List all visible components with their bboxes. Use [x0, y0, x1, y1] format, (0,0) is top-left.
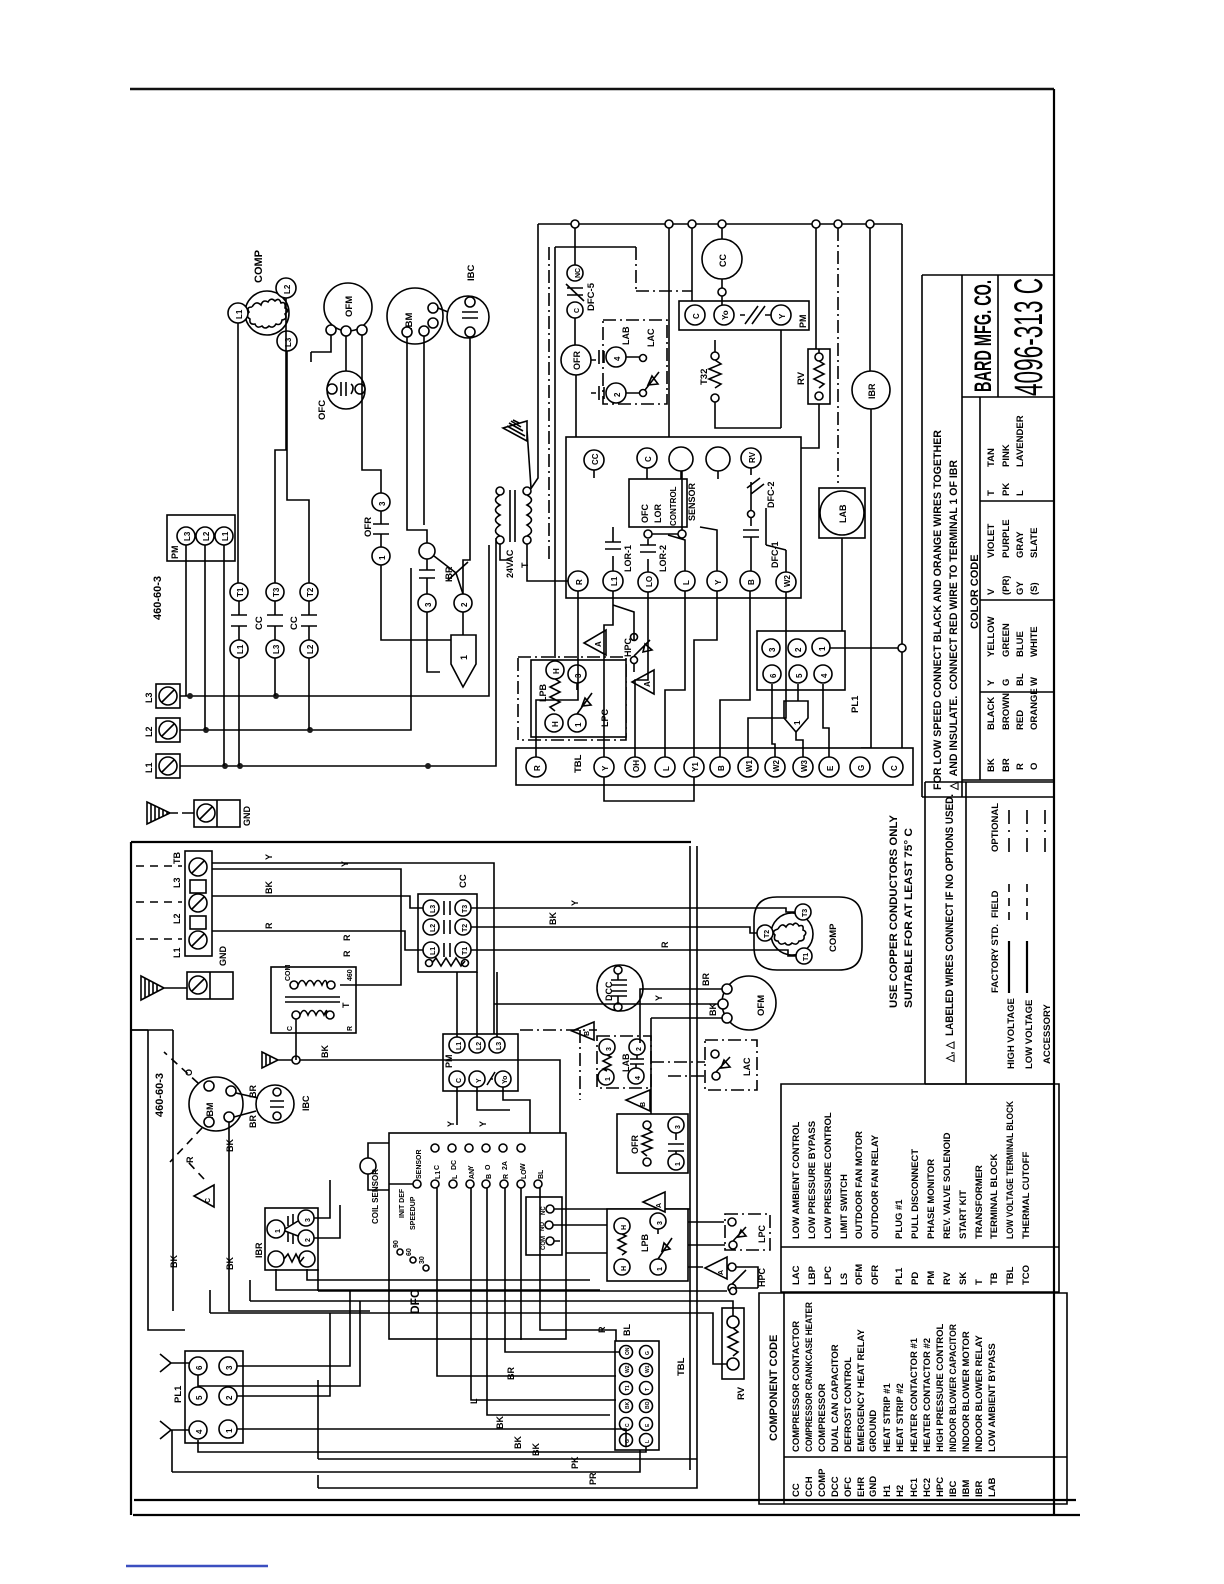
svg-text:VIOLET: VIOLET — [986, 523, 997, 558]
svg-text:DUAL CAN CAPACITOR: DUAL CAN CAPACITOR — [830, 1344, 841, 1452]
warning triangle left of LPB — [643, 1192, 665, 1212]
svg-text:PINK: PINK — [1001, 444, 1012, 467]
svg-text:R: R — [342, 934, 352, 941]
svg-text:COMP: COMP — [817, 1468, 828, 1497]
warning triangle HPC — [705, 1257, 727, 1279]
chassis ground and BK wire — [262, 1052, 292, 1068]
svg-text:BR: BR — [701, 973, 711, 986]
wire COMP L2 down — [275, 298, 286, 583]
LPC contact — [568, 665, 586, 683]
svg-text:L: L — [469, 1398, 479, 1404]
svg-text:Yo: Yo — [721, 310, 730, 320]
svg-text:GREEN: GREEN — [1001, 623, 1012, 657]
svg-text:G: G — [645, 1351, 651, 1355]
wire transformer C down — [295, 1019, 297, 1060]
svg-text:BK: BK — [225, 1257, 235, 1270]
wires CC to COMP — [471, 908, 796, 956]
svg-text:2A: 2A — [502, 1161, 509, 1170]
svg-text:L1: L1 — [235, 309, 244, 319]
svg-text:TB: TB — [989, 1272, 1000, 1285]
wire IBM feeds — [407, 336, 427, 543]
solenoid RV upper — [808, 349, 830, 404]
DFC pins upper row — [431, 1144, 439, 1152]
svg-text:COMP: COMP — [828, 923, 839, 952]
svg-text:L3: L3 — [430, 905, 437, 913]
contact LOR-2 — [640, 539, 656, 572]
svg-text:YELLOW: YELLOW — [986, 616, 997, 657]
svg-text:LPC: LPC — [757, 1224, 767, 1243]
svg-text:3: 3 — [424, 602, 433, 607]
svg-text:PL1: PL1 — [173, 1385, 184, 1403]
DFC relay contact COM NO NC — [526, 1197, 562, 1255]
lower section top border — [131, 841, 691, 843]
plug LAC box — [603, 320, 667, 404]
board circle RV — [741, 448, 761, 468]
svg-text:SK: SK — [958, 1272, 969, 1285]
svg-text:V: V — [986, 588, 997, 595]
svg-text:T1: T1 — [803, 953, 810, 961]
svg-text:BK: BK — [625, 1401, 631, 1409]
svg-text:O: O — [1029, 763, 1040, 770]
svg-text:ON: ON — [625, 1347, 631, 1355]
svg-text:A: A — [594, 641, 603, 647]
svg-text:L1: L1 — [435, 1171, 442, 1179]
resistor T32 — [711, 352, 719, 360]
svg-text:3: 3 — [675, 1125, 682, 1129]
contactor CC contacts upper — [230, 583, 248, 601]
svg-text:2: 2 — [636, 1047, 643, 1051]
terminal L2 — [156, 718, 180, 742]
svg-text:A: A — [656, 1203, 663, 1208]
svg-text:BROWN: BROWN — [1001, 693, 1012, 730]
svg-text:90: 90 — [393, 1240, 400, 1248]
ground terminal GND box — [194, 800, 240, 827]
motor IBM upper — [387, 288, 443, 344]
svg-text:RED: RED — [1015, 710, 1026, 730]
wire x173 drop — [131, 1030, 173, 1311]
svg-text:R: R — [342, 950, 352, 957]
svg-text:L: L — [1015, 490, 1026, 496]
svg-text:460-60-3: 460-60-3 — [152, 576, 164, 620]
wires DFC pins down — [437, 1188, 619, 1415]
svg-text:R: R — [575, 579, 584, 585]
svg-text:LAC: LAC — [742, 1057, 752, 1076]
svg-text:R: R — [1015, 763, 1026, 770]
plug LAC lower — [705, 1040, 757, 1090]
svg-text:T2: T2 — [306, 587, 315, 597]
svg-text:IBC: IBC — [466, 265, 477, 282]
svg-text:CC: CC — [458, 874, 469, 888]
svg-text:HC1: HC1 — [909, 1477, 920, 1497]
svg-text:COMP: COMP — [253, 250, 265, 283]
svg-text:△ AND INSULATE. CONNECT RED: △ AND INSULATE. CONNECT RED WIRE TO TERM… — [948, 460, 960, 791]
svg-text:Y: Y — [654, 995, 664, 1001]
svg-text:OFR: OFR — [363, 517, 374, 537]
plug arrow 1 below PL1 — [784, 701, 808, 732]
svg-text:GND: GND — [242, 806, 252, 827]
svg-text:OFC: OFC — [317, 400, 328, 420]
capacitor DCC lower — [597, 965, 643, 1011]
motor OFM upper — [324, 283, 372, 331]
svg-text:CC: CC — [254, 616, 265, 630]
svg-text:G: G — [1001, 679, 1012, 686]
svg-text:PM: PM — [444, 1055, 454, 1069]
compressor COMP lower — [754, 897, 862, 970]
svg-text:HPC: HPC — [757, 1267, 767, 1287]
svg-text:HEATER CONTACTOR #2: HEATER CONTACTOR #2 — [922, 1338, 933, 1452]
transformer T lower — [271, 967, 356, 1033]
svg-text:B: B — [747, 579, 756, 585]
svg-text:T1: T1 — [236, 587, 245, 597]
svg-text:CONTROL: CONTROL — [669, 486, 678, 526]
wire L3 feeder — [180, 545, 489, 696]
svg-text:BL: BL — [1015, 673, 1026, 686]
svg-text:4: 4 — [613, 356, 622, 361]
COMP terminal L2 — [276, 278, 296, 298]
svg-text:IBM: IBM — [961, 1480, 972, 1498]
svg-text:DCC: DCC — [604, 981, 614, 1001]
svg-text:GND: GND — [868, 1476, 879, 1497]
border frame top line — [130, 88, 1054, 91]
wires DFC relay pins to feeder — [553, 1209, 758, 1288]
svg-text:CCH: CCH — [804, 1476, 815, 1497]
wire left margin drop — [131, 1030, 185, 1330]
svg-text:(PR): (PR) — [1001, 575, 1012, 595]
svg-text:PK: PK — [1001, 483, 1012, 496]
phase monitor PM box upper — [167, 515, 235, 561]
svg-text:WHITE: WHITE — [1029, 626, 1040, 657]
wires IBR box out — [276, 1180, 600, 1290]
svg-text:4: 4 — [820, 673, 829, 678]
svg-text:DCC: DCC — [830, 1476, 841, 1497]
wire IBR contact 3 down — [427, 612, 440, 672]
svg-text:B: B — [717, 765, 726, 771]
svg-text:1: 1 — [459, 655, 469, 660]
contact DFC-2 — [747, 468, 764, 510]
svg-text:L1: L1 — [221, 531, 230, 541]
legend box labeled wires — [925, 782, 1054, 1084]
svg-text:IBC: IBC — [948, 1481, 959, 1498]
svg-text:OFR: OFR — [630, 1135, 640, 1154]
svg-text:L1: L1 — [144, 762, 154, 773]
svg-text:L2: L2 — [144, 726, 154, 737]
terminal strip TBL lower — [615, 1341, 659, 1450]
component table lower box — [759, 1293, 1067, 1504]
svg-text:R: R — [533, 765, 542, 771]
svg-text:W2: W2 — [625, 1365, 631, 1373]
svg-text:PURPLE: PURPLE — [1001, 519, 1012, 558]
wire IBM BK down — [229, 1122, 370, 1311]
svg-text:TBL: TBL — [1005, 1266, 1016, 1285]
svg-text:LOW AMBIENT CONTROL: LOW AMBIENT CONTROL — [791, 1121, 802, 1239]
svg-text:BL: BL — [538, 1169, 545, 1179]
hatch arrow symbol — [503, 420, 531, 488]
low ambient LAB circle — [819, 488, 865, 538]
svg-text:LOW PRESSURE BYPASS: LOW PRESSURE BYPASS — [807, 1121, 818, 1239]
svg-text:2: 2 — [225, 1395, 234, 1400]
warning triangle upper B — [632, 670, 654, 694]
relay OFR lower — [617, 1114, 688, 1173]
svg-text:Y: Y — [478, 1121, 488, 1127]
svg-text:IBC: IBC — [301, 1095, 311, 1111]
svg-text:SUITABLE FOR AT LEAST 75° C: SUITABLE FOR AT LEAST 75° C — [903, 828, 915, 1008]
title block outer box — [922, 275, 1054, 797]
plug PL1 upper — [757, 631, 845, 690]
svg-text:L3: L3 — [496, 1042, 503, 1050]
svg-text:O: O — [485, 1164, 492, 1170]
svg-text:LOR-2: LOR-2 — [658, 545, 668, 572]
svg-text:NO: NO — [540, 1222, 546, 1231]
svg-text:BO: BO — [645, 1401, 651, 1409]
svg-text:DEFROST CONTROL: DEFROST CONTROL — [843, 1357, 854, 1452]
terminal strip TBL upper — [516, 748, 913, 785]
svg-text:ORANGE: ORANGE — [1029, 688, 1040, 730]
svg-text:1: 1 — [657, 1267, 664, 1271]
control board box — [566, 437, 801, 598]
wire OFM to OFC — [311, 335, 346, 371]
upper ladder top rail — [538, 223, 902, 225]
svg-text:CC: CC — [591, 453, 600, 465]
svg-text:HIGH VOLTAGE: HIGH VOLTAGE — [1006, 998, 1017, 1069]
svg-text:TB: TB — [172, 852, 182, 864]
svg-text:W2: W2 — [783, 574, 792, 587]
svg-text:OFC: OFC — [640, 504, 650, 523]
svg-text:Y: Y — [601, 765, 610, 771]
svg-text:LO: LO — [521, 1169, 528, 1179]
wires PL1 to TBL — [772, 684, 829, 757]
svg-text:6: 6 — [769, 673, 778, 678]
svg-text:DFC-1: DFC-1 — [770, 542, 780, 569]
wire Y from TB — [212, 863, 494, 1034]
svg-text:460: 460 — [347, 969, 354, 981]
motor IBM lower — [189, 1077, 243, 1131]
svg-text:L: L — [645, 1440, 651, 1443]
svg-text:PK: PK — [570, 1456, 580, 1469]
relay IBR lower — [265, 1208, 318, 1270]
svg-text:2: 2 — [460, 602, 469, 607]
svg-text:Y1: Y1 — [691, 762, 700, 772]
svg-text:C: C — [644, 456, 653, 462]
svg-text:PM: PM — [170, 546, 180, 560]
svg-text:T2: T2 — [764, 930, 771, 938]
svg-text:NC: NC — [541, 1206, 547, 1215]
contact LOR-1 — [605, 527, 621, 571]
capacitor OFC upper — [327, 371, 365, 409]
svg-text:GY: GY — [1015, 581, 1026, 595]
svg-text:5: 5 — [195, 1395, 204, 1400]
svg-text:BK: BK — [264, 881, 274, 894]
svg-text:L1: L1 — [236, 644, 245, 654]
svg-text:L: L — [682, 580, 691, 585]
svg-text:2: 2 — [305, 1238, 312, 1242]
svg-text:PR: PR — [588, 1472, 598, 1485]
svg-text:T: T — [645, 1388, 651, 1391]
svg-text:COM: COM — [541, 1236, 547, 1250]
svg-text:LBP: LBP — [807, 1265, 818, 1285]
svg-text:TRANSFORMER: TRANSFORMER — [974, 1165, 985, 1239]
svg-text:L1: L1 — [456, 1042, 463, 1050]
svg-text:SENSOR: SENSOR — [687, 482, 697, 521]
svg-text:C: C — [434, 1165, 441, 1170]
board bottom terminals — [568, 571, 588, 591]
svg-text:SENSOR: SENSOR — [416, 1149, 423, 1179]
svg-text:A: A — [643, 681, 652, 687]
svg-text:HEATER CONTACTOR #1: HEATER CONTACTOR #1 — [909, 1337, 920, 1452]
svg-text:T: T — [986, 490, 997, 496]
svg-text:LO: LO — [645, 576, 654, 587]
svg-text:RV: RV — [796, 371, 807, 385]
svg-text:FIELD: FIELD — [990, 890, 1001, 918]
svg-text:COMPRESSOR: COMPRESSOR — [817, 1383, 828, 1452]
antenna fork lower — [160, 1421, 189, 1439]
DFC timer pins 90 60 30 — [397, 1249, 403, 1255]
svg-text:3: 3 — [225, 1365, 234, 1370]
svg-text:C: C — [205, 1198, 212, 1203]
svg-text:INDOOR BLOWER RELAY: INDOOR BLOWER RELAY — [974, 1335, 985, 1452]
svg-text:T: T — [974, 1279, 985, 1285]
svg-text:H: H — [551, 721, 560, 727]
svg-text:B: B — [584, 1031, 591, 1036]
color code table grid — [962, 397, 1054, 780]
svg-text:GRAY: GRAY — [1015, 531, 1026, 558]
svg-text:COIL SENSOR: COIL SENSOR — [371, 1169, 380, 1224]
svg-text:COMPONENT CODE: COMPONENT CODE — [768, 1335, 780, 1441]
wire OFR contact down — [381, 565, 451, 640]
svg-text:2: 2 — [794, 647, 803, 652]
ground symbol upper — [147, 802, 178, 824]
warning triangle above OFR — [626, 1090, 650, 1111]
contact DFC-5 — [567, 265, 583, 281]
svg-text:BARD MFG. CO.: BARD MFG. CO. — [970, 280, 997, 392]
svg-text:DFC-5: DFC-5 — [586, 282, 597, 311]
svg-text:LOW VOLTAGE: LOW VOLTAGE — [1024, 1000, 1035, 1069]
svg-text:HEAT STRIP #2: HEAT STRIP #2 — [895, 1383, 906, 1452]
svg-text:B: B — [640, 1102, 647, 1107]
motor OFM lower — [722, 976, 776, 1030]
wire IBC down — [463, 337, 470, 594]
svg-text:LAC: LAC — [646, 328, 656, 347]
LPB heater — [546, 661, 564, 679]
solenoid RV lower — [722, 1308, 744, 1379]
svg-text:T: T — [520, 562, 530, 568]
svg-text:E: E — [826, 765, 835, 771]
svg-text:L3: L3 — [144, 692, 154, 703]
svg-text:LOW PRESSURE CONTROL: LOW PRESSURE CONTROL — [823, 1112, 834, 1239]
svg-text:AN: AN — [469, 1169, 476, 1179]
svg-text:W1: W1 — [645, 1365, 651, 1373]
svg-text:OFC: OFC — [843, 1477, 854, 1497]
svg-text:C: C — [456, 1078, 463, 1083]
DFC pins lower row — [413, 1180, 421, 1188]
svg-text:Y: Y — [986, 679, 997, 686]
wire PL1-1 to right rail — [830, 647, 902, 649]
svg-text:EHR: EHR — [856, 1477, 867, 1497]
plug LPC lower — [725, 1214, 770, 1250]
svg-text:1: 1 — [818, 646, 827, 651]
svg-text:ACCESSORY: ACCESSORY — [1042, 1004, 1053, 1064]
svg-text:R: R — [264, 922, 274, 929]
svg-text:DC: DC — [451, 1160, 458, 1170]
svg-text:L2: L2 — [306, 644, 315, 654]
svg-text:T1: T1 — [462, 947, 469, 955]
svg-text:460-60-3: 460-60-3 — [154, 1073, 166, 1117]
svg-text:OFM: OFM — [344, 296, 355, 317]
board circle C — [637, 448, 657, 468]
svg-text:RV: RV — [736, 1386, 747, 1400]
svg-text:LOW VOLTAGE TERMINAL BLOCK: LOW VOLTAGE TERMINAL BLOCK — [1005, 1101, 1016, 1239]
terminal block TB lower — [185, 851, 212, 956]
svg-text:INDOOR BLOWER CAPACITOR: INDOOR BLOWER CAPACITOR — [948, 1324, 959, 1452]
ground symbol lower — [141, 976, 187, 1000]
svg-text:HPC: HPC — [935, 1477, 946, 1497]
wire PM sense lines — [186, 545, 224, 766]
relay contact IBR upper — [419, 543, 435, 559]
field wiring dashes into TB — [136, 866, 182, 939]
svg-text:LIMIT SWITCH: LIMIT SWITCH — [839, 1174, 850, 1239]
svg-text:BK: BK — [169, 1255, 179, 1268]
switch in LAC — [640, 355, 647, 362]
accessory dash-dot link — [636, 247, 692, 291]
svg-text:BK: BK — [986, 758, 997, 772]
svg-text:T3: T3 — [802, 909, 809, 917]
switch HPC upper — [631, 634, 638, 641]
terminal L1 — [156, 754, 180, 778]
svg-text:NC: NC — [575, 268, 582, 278]
svg-text:OPTIONAL: OPTIONAL — [990, 803, 1001, 852]
svg-text:△, △ LABELED WIRES CONNECT IF: △, △ LABELED WIRES CONNECT IF NO OPTIONS… — [944, 794, 956, 1063]
svg-text:LPC: LPC — [823, 1266, 834, 1285]
warning triangle lower left of LAB — [572, 1022, 594, 1040]
svg-text:T2: T2 — [462, 924, 469, 932]
svg-text:1: 1 — [675, 1162, 682, 1166]
svg-text:START KIT: START KIT — [958, 1190, 969, 1239]
svg-text:CC: CC — [718, 254, 728, 267]
svg-text:H: H — [621, 1266, 628, 1271]
wire drop x692 — [691, 228, 693, 301]
svg-text:RV: RV — [942, 1271, 953, 1285]
svg-text:Y: Y — [340, 861, 350, 867]
wires PM outputs — [457, 1087, 530, 1133]
svg-text:LAB: LAB — [621, 1053, 631, 1072]
svg-text:LAVENDER: LAVENDER — [1015, 415, 1026, 467]
svg-text:BR: BR — [1001, 758, 1012, 772]
board circle CC — [584, 450, 604, 470]
phase monitor PM box lower — [443, 1034, 518, 1091]
svg-text:1: 1 — [574, 722, 583, 727]
svg-text:L1: L1 — [430, 947, 437, 955]
svg-text:COMPRESSOR CRANKCASE HEATER: COMPRESSOR CRANKCASE HEATER — [804, 1302, 815, 1452]
svg-text:R: R — [503, 1174, 510, 1179]
svg-text:LPB: LPB — [640, 1233, 650, 1252]
svg-text:L1: L1 — [172, 947, 182, 958]
plug arrow 1 upper — [451, 635, 476, 687]
junction dots feeders — [187, 693, 193, 699]
svg-text:24VAC: 24VAC — [505, 549, 515, 578]
double vertical feeder lines — [690, 846, 697, 1473]
svg-text:LPC: LPC — [600, 708, 610, 727]
svg-text:1: 1 — [225, 1428, 234, 1433]
svg-text:TERMINAL BLOCK: TERMINAL BLOCK — [989, 1154, 1000, 1239]
contactor CC box lower — [418, 894, 477, 972]
svg-text:T1: T1 — [625, 1385, 631, 1391]
svg-text:OH: OH — [632, 760, 641, 772]
svg-text:T32: T32 — [699, 369, 710, 385]
svg-text:IBR: IBR — [444, 566, 454, 582]
svg-text:GROUND: GROUND — [868, 1410, 879, 1452]
component table upper box — [781, 1084, 1059, 1292]
svg-text:1: 1 — [605, 1077, 612, 1081]
capacitor IBC lower — [256, 1085, 294, 1123]
